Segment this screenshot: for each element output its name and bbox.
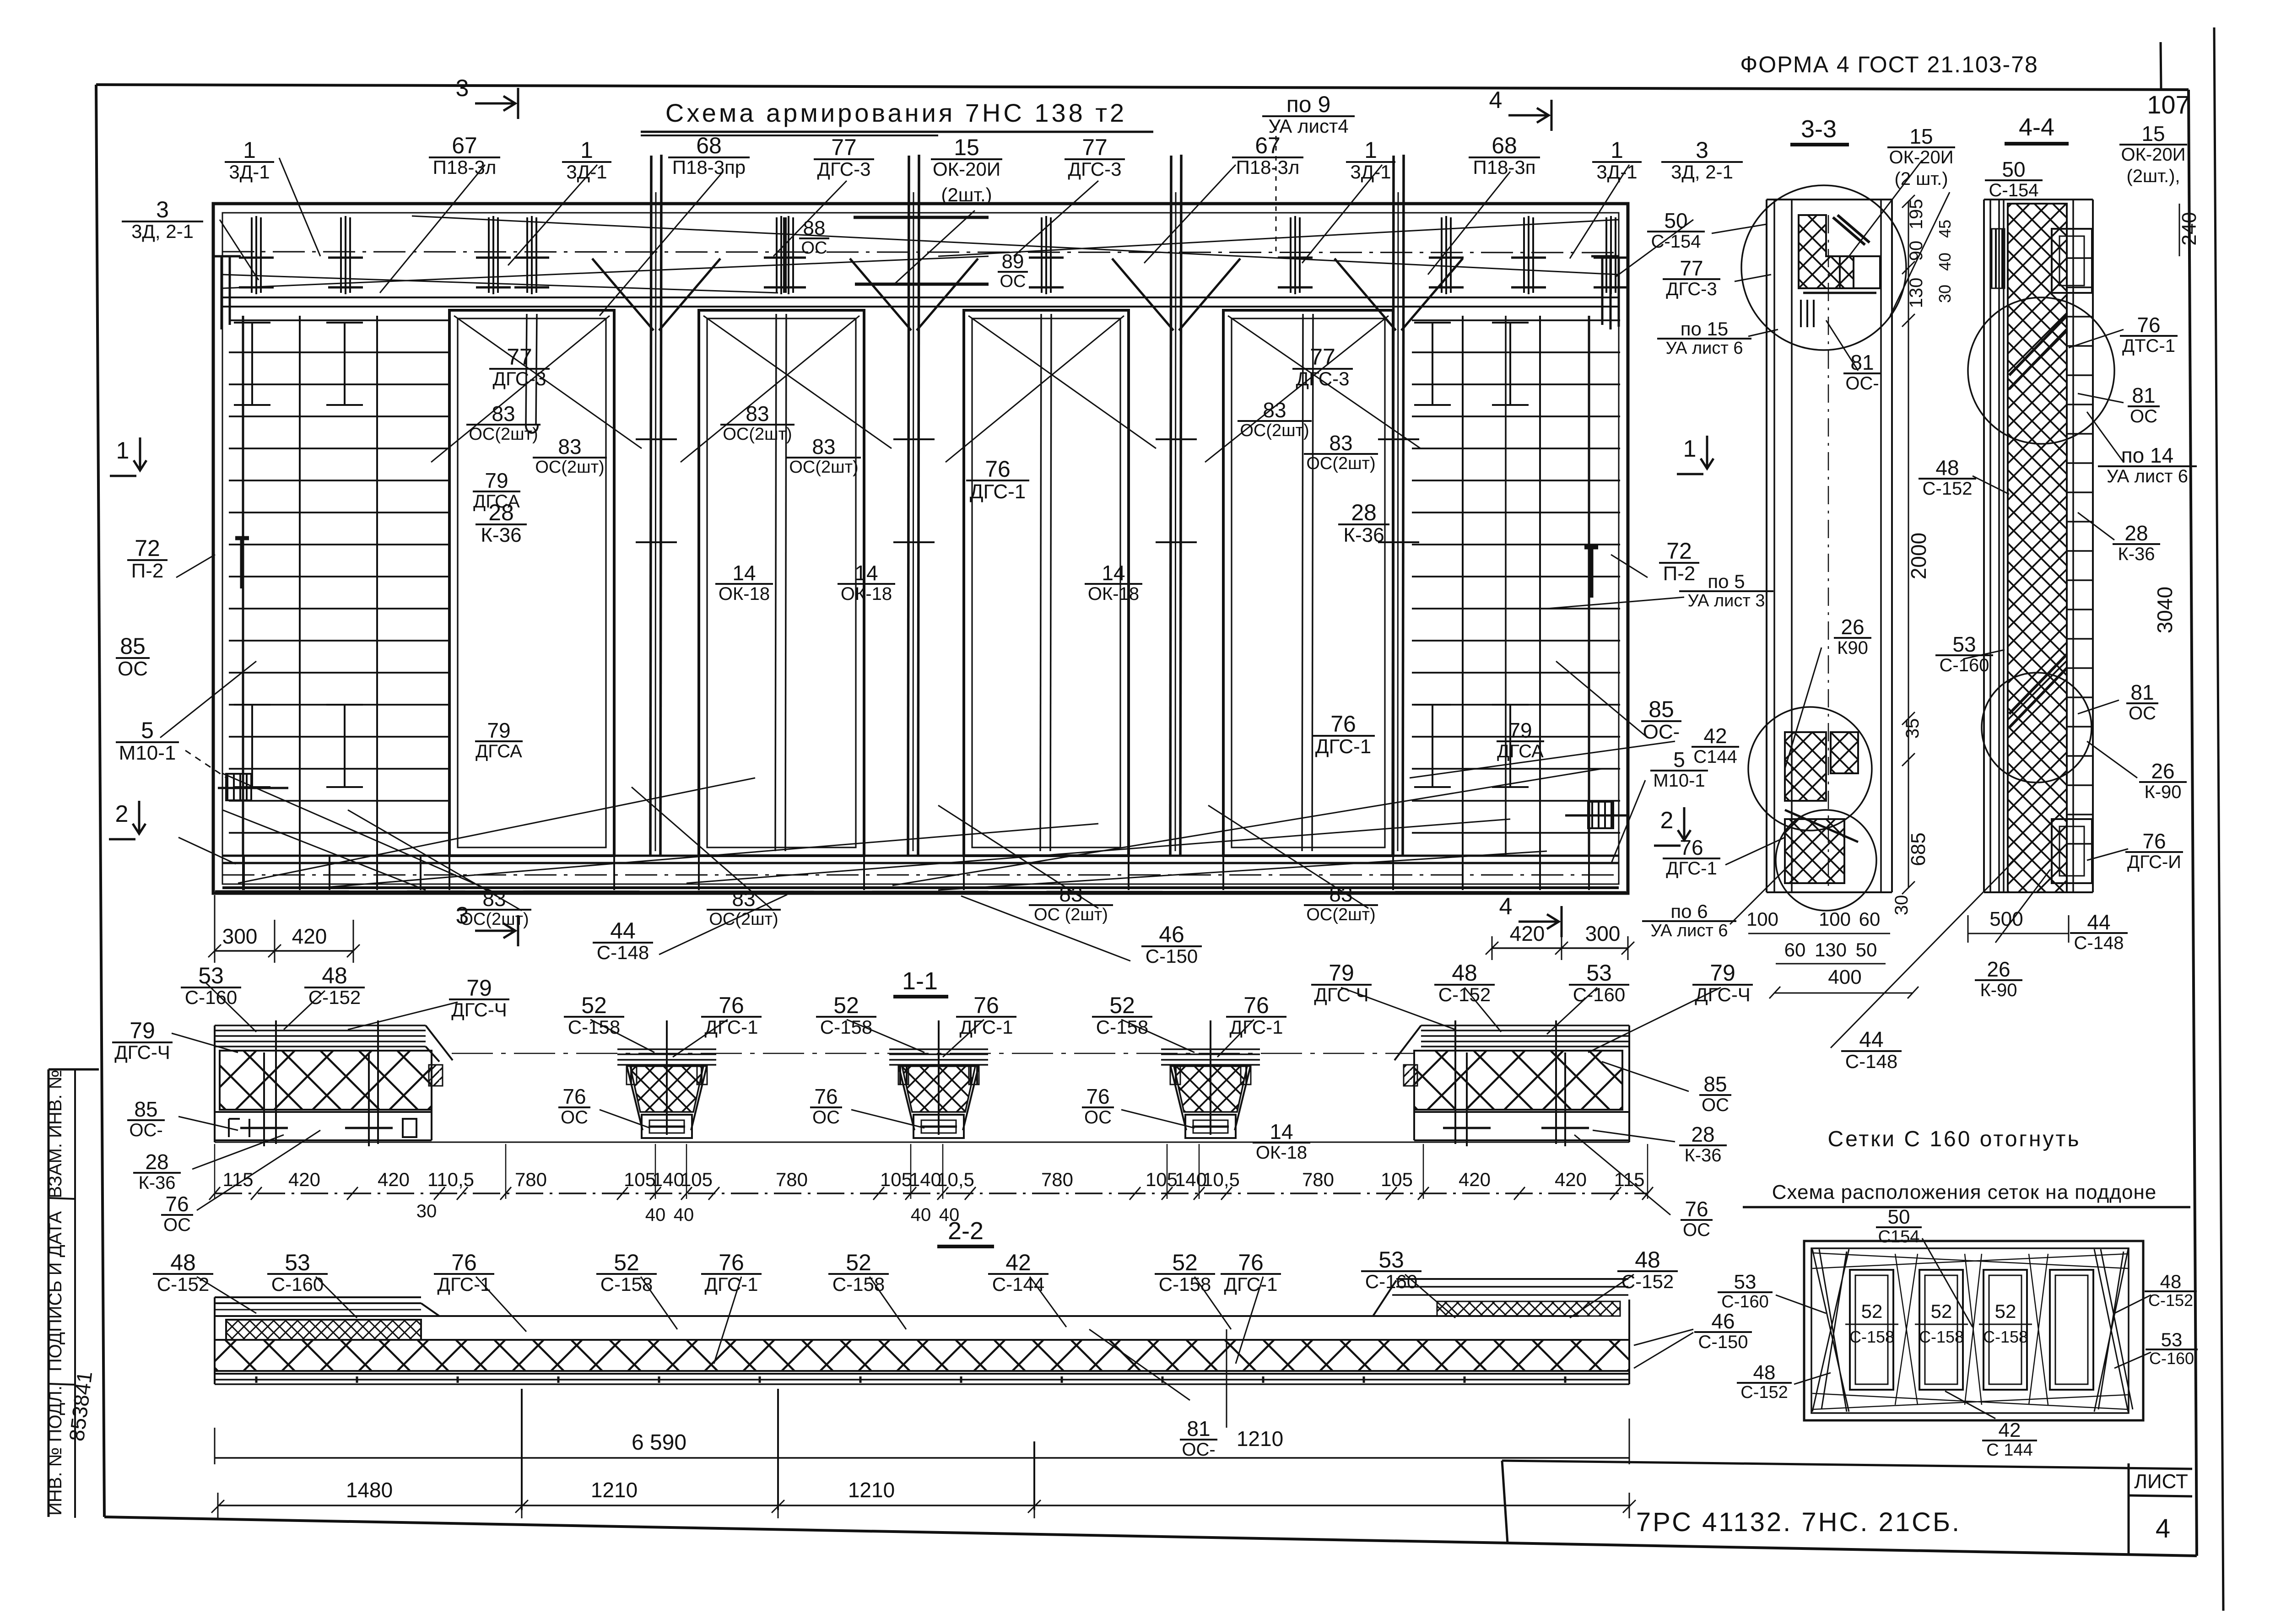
svg-text:72: 72 bbox=[135, 535, 160, 561]
svg-text:50: 50 bbox=[1856, 939, 1877, 960]
svg-text:30: 30 bbox=[1935, 285, 1954, 303]
svg-text:ДГС-1: ДГС-1 bbox=[705, 1016, 758, 1038]
svg-text:685: 685 bbox=[1907, 832, 1929, 866]
svg-text:53: 53 bbox=[1734, 1271, 1757, 1293]
svg-text:30: 30 bbox=[416, 1201, 437, 1221]
left margin stamp column bbox=[48, 1069, 50, 1517]
svg-text:П-2: П-2 bbox=[1663, 562, 1696, 585]
svg-text:ОС: ОС bbox=[2130, 406, 2157, 426]
svg-text:44: 44 bbox=[1859, 1028, 1883, 1052]
svg-text:42: 42 bbox=[1999, 1419, 2021, 1441]
svg-text:С-152: С-152 bbox=[157, 1273, 209, 1295]
svg-text:83: 83 bbox=[812, 435, 835, 459]
section 1-1 right end block bbox=[1421, 1025, 1629, 1026]
svg-text:76: 76 bbox=[165, 1192, 189, 1216]
svg-text:К-36: К-36 bbox=[2118, 544, 2155, 564]
svg-text:48: 48 bbox=[2160, 1271, 2182, 1292]
svg-text:ОС: ОС bbox=[118, 658, 148, 680]
svg-text:К90: К90 bbox=[1837, 638, 1868, 658]
svg-text:ОС(2шт): ОС(2шт) bbox=[535, 458, 604, 477]
svg-text:81: 81 bbox=[1850, 351, 1874, 374]
svg-text:ДГСА: ДГСА bbox=[476, 741, 522, 761]
svg-text:ДГС-3: ДГС-3 bbox=[1666, 279, 1717, 299]
svg-text:28: 28 bbox=[1691, 1122, 1714, 1146]
section 1-1 left end block bbox=[215, 1025, 426, 1026]
svg-text:130: 130 bbox=[1906, 278, 1926, 308]
svg-text:42: 42 bbox=[1703, 724, 1727, 748]
svg-text:С-158: С-158 bbox=[1849, 1327, 1894, 1346]
svg-text:С-152: С-152 bbox=[1740, 1383, 1788, 1402]
svg-text:52: 52 bbox=[1109, 993, 1135, 1018]
svg-text:УА лист4: УА лист4 bbox=[1268, 115, 1348, 137]
svg-text:44: 44 bbox=[2087, 910, 2110, 934]
svg-text:130: 130 bbox=[1815, 939, 1847, 960]
svg-text:68: 68 bbox=[696, 133, 722, 158]
svg-text:52: 52 bbox=[1995, 1300, 2016, 1322]
svg-text:3: 3 bbox=[456, 75, 469, 102]
svg-text:4: 4 bbox=[2156, 1514, 2170, 1543]
svg-text:72: 72 bbox=[1666, 538, 1692, 564]
top band hooks ЗД-1 bbox=[251, 217, 253, 293]
svg-text:ДГС-1: ДГС-1 bbox=[970, 480, 1026, 503]
svg-text:ОС-: ОС- bbox=[1845, 373, 1879, 394]
section 2-2 panel strip bbox=[215, 1296, 421, 1298]
svg-text:ДГС-1: ДГС-1 bbox=[1666, 858, 1717, 879]
svg-text:С-148: С-148 bbox=[2074, 933, 2124, 953]
svg-text:ДГС-1: ДГС-1 bbox=[1224, 1273, 1278, 1295]
svg-text:ДГС-3: ДГС-3 bbox=[1068, 158, 1122, 180]
svg-text:К-36: К-36 bbox=[1343, 524, 1384, 546]
svg-text:(2шт.),: (2шт.), bbox=[2126, 166, 2180, 186]
svg-text:300: 300 bbox=[222, 924, 258, 948]
window centre loop bars ОК-20И bbox=[526, 314, 527, 426]
svg-text:100: 100 bbox=[1746, 908, 1778, 930]
svg-text:3Д, 2-1: 3Д, 2-1 bbox=[1671, 161, 1733, 183]
pallet outer frame bbox=[1804, 1241, 2143, 1420]
svg-text:ОС: ОС bbox=[812, 1107, 840, 1128]
svg-text:5: 5 bbox=[141, 718, 154, 743]
svg-text:Схема армирования 7НС 138 т2: Схема армирования 7НС 138 т2 bbox=[665, 98, 1127, 127]
svg-text:С-160: С-160 bbox=[2149, 1349, 2194, 1368]
svg-text:76: 76 bbox=[2137, 313, 2160, 337]
svg-text:ОК-18: ОК-18 bbox=[719, 584, 770, 604]
svg-text:48: 48 bbox=[170, 1250, 196, 1275]
section 1-1 rib pots bbox=[617, 1048, 716, 1050]
svg-text:ОС: ОС bbox=[561, 1107, 588, 1128]
svg-text:2000: 2000 bbox=[1907, 533, 1930, 579]
svg-text:40: 40 bbox=[1935, 253, 1954, 271]
svg-text:53: 53 bbox=[1378, 1247, 1404, 1273]
svg-text:П-2: П-2 bbox=[131, 560, 164, 582]
right ladder mesh К-36 bbox=[1412, 319, 1620, 321]
svg-text:С-148: С-148 bbox=[597, 942, 649, 963]
svg-text:ОК-20И: ОК-20И bbox=[933, 158, 1000, 180]
svg-text:ЛИСТ: ЛИСТ bbox=[2134, 1470, 2188, 1493]
svg-text:115: 115 bbox=[1614, 1169, 1645, 1190]
svg-text:140: 140 bbox=[652, 1169, 684, 1190]
svg-text:УА лист 3: УА лист 3 bbox=[1688, 591, 1765, 610]
svg-text:ОС: ОС bbox=[1000, 272, 1026, 291]
svg-text:(2шт.): (2шт.) bbox=[941, 184, 992, 205]
svg-text:53: 53 bbox=[285, 1250, 310, 1275]
svg-text:85: 85 bbox=[1648, 696, 1674, 722]
svg-text:3Д, 2-1: 3Д, 2-1 bbox=[131, 221, 194, 242]
svg-text:420: 420 bbox=[1459, 1169, 1491, 1190]
svg-text:ДГС-3: ДГС-3 bbox=[493, 368, 546, 389]
svg-text:С-152: С-152 bbox=[1438, 984, 1491, 1005]
svg-text:С-154: С-154 bbox=[1651, 232, 1701, 252]
svg-text:53: 53 bbox=[2161, 1329, 2183, 1350]
svg-text:79: 79 bbox=[1329, 960, 1354, 986]
svg-text:С-160: С-160 bbox=[1721, 1292, 1769, 1311]
svg-text:ОС: ОС bbox=[1683, 1220, 1710, 1240]
svg-text:1: 1 bbox=[580, 137, 593, 163]
svg-text:10,5: 10,5 bbox=[1202, 1169, 1240, 1190]
left ladder mesh К-36 bbox=[229, 319, 451, 321]
svg-text:76: 76 bbox=[2142, 829, 2166, 853]
svg-text:ДГС-1: ДГС-1 bbox=[1315, 735, 1372, 758]
svg-text:77: 77 bbox=[1082, 135, 1108, 160]
svg-text:76: 76 bbox=[1243, 993, 1269, 1018]
svg-text:52: 52 bbox=[581, 993, 607, 1018]
svg-text:ДГС-1: ДГС-1 bbox=[705, 1273, 758, 1295]
svg-text:7РС 41132. 7НС. 21СБ.: 7РС 41132. 7НС. 21СБ. bbox=[1636, 1507, 1961, 1537]
svg-text:ОС: ОС bbox=[2129, 703, 2156, 723]
svg-text:44: 44 bbox=[610, 918, 636, 944]
svg-text:85: 85 bbox=[134, 1097, 157, 1121]
svg-text:2: 2 bbox=[1660, 807, 1674, 834]
svg-text:ОС-: ОС- bbox=[1643, 721, 1680, 743]
pier vertical bars П18-3 bbox=[650, 156, 651, 855]
svg-text:15: 15 bbox=[2141, 122, 2165, 146]
svg-text:52: 52 bbox=[614, 1250, 639, 1275]
svg-text:90: 90 bbox=[1906, 241, 1926, 261]
svg-text:76: 76 bbox=[1680, 836, 1703, 859]
svg-text:53: 53 bbox=[1952, 632, 1976, 656]
svg-text:5: 5 bbox=[1673, 748, 1685, 772]
svg-text:ФОРМА 4 ГОСТ 21.103-78: ФОРМА 4 ГОСТ 21.103-78 bbox=[1740, 52, 2038, 77]
svg-text:3Д-1: 3Д-1 bbox=[229, 161, 270, 183]
svg-text:П18-3л: П18-3л bbox=[433, 156, 497, 178]
svg-text:1210: 1210 bbox=[1237, 1427, 1283, 1451]
svg-text:С-152: С-152 bbox=[1923, 479, 1973, 499]
svg-text:105: 105 bbox=[681, 1169, 713, 1190]
svg-text:ВЗАМ. ИНВ. №: ВЗАМ. ИНВ. № bbox=[45, 1069, 65, 1198]
svg-text:76: 76 bbox=[451, 1250, 477, 1275]
svg-text:С-152: С-152 bbox=[1621, 1271, 1674, 1292]
svg-text:52: 52 bbox=[1931, 1300, 1952, 1322]
svg-text:52: 52 bbox=[1861, 1300, 1883, 1322]
svg-text:83: 83 bbox=[746, 402, 769, 426]
window openings ОК-18 bbox=[449, 310, 614, 856]
svg-text:107: 107 bbox=[2147, 90, 2189, 119]
svg-text:77: 77 bbox=[831, 135, 857, 160]
svg-text:по 14: по 14 bbox=[2121, 443, 2173, 467]
svg-text:45: 45 bbox=[1935, 220, 1954, 238]
svg-text:115: 115 bbox=[223, 1169, 254, 1190]
svg-text:ДГС-3: ДГС-3 bbox=[817, 158, 871, 180]
svg-text:ОС(2шт): ОС(2шт) bbox=[723, 425, 792, 444]
sheet border frame bbox=[96, 85, 2189, 90]
svg-text:ДГС-Ч: ДГС-Ч bbox=[114, 1041, 170, 1063]
svg-text:ОС(2шт): ОС(2шт) bbox=[1306, 454, 1375, 473]
svg-text:П18-3пр: П18-3пр bbox=[672, 156, 746, 178]
svg-text:780: 780 bbox=[1302, 1169, 1334, 1190]
svg-text:100: 100 bbox=[1819, 908, 1851, 930]
svg-text:79: 79 bbox=[1710, 960, 1735, 986]
svg-text:3Д-1: 3Д-1 bbox=[1596, 161, 1637, 183]
svg-text:40: 40 bbox=[645, 1205, 666, 1225]
svg-text:С-158: С-158 bbox=[568, 1016, 620, 1038]
svg-text:48: 48 bbox=[1753, 1361, 1776, 1384]
svg-text:77: 77 bbox=[1680, 256, 1703, 280]
svg-text:48: 48 bbox=[1635, 1247, 1660, 1273]
svg-text:3040: 3040 bbox=[2153, 587, 2177, 633]
svg-text:1: 1 bbox=[1364, 137, 1377, 163]
svg-text:П18-3п: П18-3п bbox=[1473, 156, 1536, 178]
svg-text:400: 400 bbox=[1828, 966, 1861, 988]
svg-text:ОС(2шт): ОС(2шт) bbox=[789, 458, 858, 477]
svg-text:1: 1 bbox=[116, 437, 130, 464]
svg-text:46: 46 bbox=[1711, 1309, 1735, 1333]
svg-text:С-152: С-152 bbox=[308, 987, 361, 1008]
svg-text:105: 105 bbox=[1381, 1169, 1413, 1190]
svg-text:83: 83 bbox=[492, 402, 515, 426]
svg-text:76: 76 bbox=[719, 1250, 744, 1275]
svg-text:76: 76 bbox=[814, 1084, 838, 1108]
svg-text:85: 85 bbox=[120, 633, 146, 659]
svg-text:83: 83 bbox=[1263, 398, 1286, 422]
svg-text:42: 42 bbox=[1005, 1250, 1031, 1275]
svg-text:2: 2 bbox=[115, 801, 129, 827]
svg-text:81: 81 bbox=[1187, 1417, 1210, 1441]
svg-text:60: 60 bbox=[1859, 908, 1881, 930]
svg-text:по 5: по 5 bbox=[1708, 571, 1745, 592]
svg-text:С-158: С-158 bbox=[1983, 1327, 2028, 1346]
svg-text:С-152: С-152 bbox=[2148, 1291, 2193, 1310]
svg-text:76: 76 bbox=[1330, 711, 1356, 737]
svg-text:С-150: С-150 bbox=[1698, 1332, 1748, 1352]
svg-text:С-154: С-154 bbox=[1989, 180, 2039, 200]
svg-text:ДГС-3: ДГС-3 bbox=[1296, 368, 1350, 389]
svg-text:ДГС-1: ДГС-1 bbox=[1230, 1016, 1283, 1038]
svg-text:С-148: С-148 bbox=[1845, 1051, 1897, 1072]
svg-text:105: 105 bbox=[624, 1169, 656, 1190]
anchors М10-1 bbox=[226, 774, 251, 800]
svg-text:4: 4 bbox=[1489, 87, 1503, 113]
svg-text:С-150: С-150 bbox=[1146, 945, 1198, 967]
svg-text:83: 83 bbox=[732, 887, 755, 911]
svg-text:26: 26 bbox=[2151, 759, 2174, 783]
svg-text:50: 50 bbox=[2002, 157, 2025, 181]
svg-text:3: 3 bbox=[1696, 137, 1708, 163]
svg-text:С154: С154 bbox=[1878, 1227, 1920, 1246]
svg-text:79: 79 bbox=[130, 1018, 155, 1043]
svg-text:83: 83 bbox=[558, 435, 581, 459]
svg-text:ДГСА: ДГСА bbox=[1497, 741, 1544, 761]
svg-text:1: 1 bbox=[243, 137, 256, 163]
svg-text:С-158: С-158 bbox=[600, 1273, 653, 1295]
svg-text:С-158: С-158 bbox=[1159, 1273, 1211, 1295]
svg-text:67: 67 bbox=[452, 133, 477, 158]
svg-text:88: 88 bbox=[803, 217, 826, 239]
svg-text:420: 420 bbox=[378, 1169, 410, 1190]
svg-text:76: 76 bbox=[562, 1084, 586, 1108]
svg-text:420: 420 bbox=[292, 924, 327, 948]
svg-text:28: 28 bbox=[145, 1150, 168, 1174]
svg-text:С-144: С-144 bbox=[992, 1273, 1044, 1295]
svg-text:ОК-20И: ОК-20И bbox=[2121, 145, 2186, 165]
svg-text:89: 89 bbox=[1002, 250, 1024, 273]
svg-text:3: 3 bbox=[456, 902, 469, 929]
svg-text:15: 15 bbox=[1909, 124, 1933, 148]
svg-text:ОС: ОС bbox=[1702, 1095, 1729, 1115]
svg-text:240: 240 bbox=[2178, 212, 2200, 245]
svg-text:ДГС-Ч: ДГС-Ч bbox=[451, 999, 507, 1020]
svg-text:79: 79 bbox=[1508, 718, 1532, 742]
svg-text:ОС: ОС bbox=[163, 1215, 191, 1235]
svg-text:М10-1: М10-1 bbox=[119, 742, 176, 764]
svg-text:14: 14 bbox=[1270, 1120, 1293, 1144]
svg-text:С-158: С-158 bbox=[832, 1273, 885, 1295]
svg-text:1210: 1210 bbox=[591, 1478, 638, 1502]
svg-text:105: 105 bbox=[1146, 1169, 1178, 1190]
svg-text:1: 1 bbox=[1611, 137, 1623, 163]
svg-text:52: 52 bbox=[1172, 1250, 1198, 1275]
svg-text:30: 30 bbox=[1892, 895, 1912, 916]
svg-text:по 15: по 15 bbox=[1681, 318, 1729, 340]
svg-text:6 590: 6 590 bbox=[632, 1430, 686, 1455]
svg-text:С-158: С-158 bbox=[1919, 1327, 1964, 1346]
svg-text:ОК-18: ОК-18 bbox=[1256, 1143, 1307, 1163]
svg-text:68: 68 bbox=[1492, 133, 1517, 158]
svg-text:28: 28 bbox=[488, 500, 514, 525]
svg-text:ОС: ОС bbox=[1084, 1107, 1112, 1128]
svg-text:ДТС-1: ДТС-1 bbox=[2122, 336, 2175, 356]
svg-text:81: 81 bbox=[2132, 383, 2155, 407]
svg-text:79: 79 bbox=[466, 975, 492, 1001]
svg-text:2-2: 2-2 bbox=[948, 1217, 984, 1245]
svg-text:15: 15 bbox=[954, 135, 979, 160]
svg-text:79: 79 bbox=[485, 469, 508, 492]
svg-text:105: 105 bbox=[880, 1169, 912, 1190]
svg-text:П18-3л: П18-3л bbox=[1236, 156, 1300, 178]
svg-text:195: 195 bbox=[1906, 199, 1926, 230]
svg-text:28: 28 bbox=[1351, 500, 1377, 525]
svg-text:40: 40 bbox=[911, 1205, 931, 1225]
svg-text:3: 3 bbox=[156, 197, 169, 222]
svg-text:К-90: К-90 bbox=[1980, 980, 2017, 1000]
svg-text:К-90: К-90 bbox=[2144, 782, 2181, 802]
svg-text:ДГС-И: ДГС-И bbox=[2127, 852, 2181, 872]
svg-text:76: 76 bbox=[1685, 1197, 1708, 1221]
svg-text:420: 420 bbox=[1555, 1169, 1587, 1190]
svg-text:40: 40 bbox=[674, 1205, 694, 1225]
svg-text:76: 76 bbox=[1238, 1250, 1264, 1275]
svg-text:ИНВ. № ПОДЛ.: ИНВ. № ПОДЛ. bbox=[45, 1386, 65, 1516]
svg-text:52: 52 bbox=[846, 1250, 871, 1275]
svg-text:ОК-20И: ОК-20И bbox=[1889, 147, 1954, 167]
svg-text:52: 52 bbox=[833, 993, 859, 1018]
svg-text:ОС(2шт): ОС(2шт) bbox=[1306, 905, 1375, 924]
svg-text:3-3: 3-3 bbox=[1801, 115, 1837, 143]
svg-text:780: 780 bbox=[776, 1169, 808, 1190]
svg-text:1210: 1210 bbox=[848, 1478, 895, 1502]
svg-text:420: 420 bbox=[1510, 922, 1545, 945]
svg-text:ОС: ОС bbox=[801, 238, 827, 258]
svg-text:53: 53 bbox=[1586, 960, 1612, 986]
svg-text:76: 76 bbox=[1086, 1084, 1109, 1108]
svg-text:ОС(2шт): ОС(2шт) bbox=[469, 425, 538, 444]
svg-text:К-36: К-36 bbox=[1684, 1145, 1721, 1165]
svg-text:ОС-: ОС- bbox=[129, 1120, 162, 1140]
svg-text:ОС(2шт): ОС(2шт) bbox=[1240, 421, 1309, 440]
svg-text:76: 76 bbox=[973, 993, 999, 1018]
svg-text:Сетки С 160 отогнуть: Сетки С 160 отогнуть bbox=[1827, 1127, 2081, 1151]
svg-text:780: 780 bbox=[515, 1169, 547, 1190]
svg-text:С 144: С 144 bbox=[1986, 1441, 2032, 1460]
svg-text:48: 48 bbox=[1935, 456, 1959, 480]
svg-text:М10-1: М10-1 bbox=[1653, 771, 1705, 791]
svg-text:1-1: 1-1 bbox=[902, 967, 938, 995]
svg-text:УА лист 6: УА лист 6 bbox=[2107, 466, 2188, 486]
svg-text:ДГС-Ч: ДГС-Ч bbox=[1695, 984, 1751, 1005]
svg-text:3Д-1: 3Д-1 bbox=[566, 161, 607, 183]
svg-text:УА лист 6: УА лист 6 bbox=[1651, 921, 1728, 940]
svg-text:81: 81 bbox=[2130, 680, 2154, 704]
svg-text:60: 60 bbox=[1784, 939, 1806, 960]
svg-text:79: 79 bbox=[487, 718, 510, 742]
svg-text:Схема расположения сеток на по: Схема расположения сеток на поддоне bbox=[1772, 1181, 2156, 1203]
svg-text:53: 53 bbox=[198, 963, 224, 988]
svg-text:ПОДПИСЬ И ДАТА: ПОДПИСЬ И ДАТА bbox=[45, 1211, 65, 1371]
svg-text:14: 14 bbox=[732, 561, 756, 585]
svg-text:48: 48 bbox=[1452, 960, 1477, 986]
svg-text:300: 300 bbox=[1585, 922, 1621, 945]
svg-text:К-36: К-36 bbox=[481, 524, 521, 546]
svg-text:50: 50 bbox=[1888, 1206, 1910, 1228]
svg-text:ОК-18: ОК-18 bbox=[1088, 584, 1139, 604]
svg-text:48: 48 bbox=[322, 963, 347, 988]
svg-text:780: 780 bbox=[1041, 1169, 1073, 1190]
svg-text:по 6: по 6 bbox=[1670, 901, 1708, 922]
main plan: reinforcement scheme 7НС 138 т2 bbox=[213, 204, 1628, 893]
svg-text:26: 26 bbox=[1841, 615, 1864, 639]
svg-text:С144: С144 bbox=[1693, 747, 1737, 767]
svg-text:76: 76 bbox=[985, 456, 1011, 482]
svg-text:85: 85 bbox=[1703, 1072, 1727, 1096]
svg-text:14: 14 bbox=[1102, 561, 1125, 585]
svg-text:77: 77 bbox=[507, 344, 532, 370]
svg-text:УА лист 6: УА лист 6 bbox=[1666, 339, 1743, 358]
svg-text:4: 4 bbox=[1499, 893, 1513, 920]
svg-text:77: 77 bbox=[1310, 344, 1335, 370]
svg-text:К-36: К-36 bbox=[138, 1173, 175, 1193]
svg-text:420: 420 bbox=[288, 1169, 320, 1190]
svg-text:14: 14 bbox=[854, 561, 878, 585]
svg-text:50: 50 bbox=[1664, 209, 1687, 232]
svg-text:28: 28 bbox=[2124, 521, 2148, 545]
svg-text:ОК-18: ОК-18 bbox=[841, 584, 892, 604]
svg-text:по 9: по 9 bbox=[1286, 92, 1331, 117]
svg-text:1480: 1480 bbox=[346, 1478, 393, 1502]
svg-text:83: 83 bbox=[1329, 431, 1352, 455]
svg-text:46: 46 bbox=[1159, 922, 1184, 947]
svg-text:4-4: 4-4 bbox=[2019, 113, 2054, 141]
svg-text:1: 1 bbox=[1683, 436, 1697, 462]
svg-text:35: 35 bbox=[1902, 718, 1923, 739]
svg-text:ОС-: ОС- bbox=[1182, 1440, 1215, 1460]
